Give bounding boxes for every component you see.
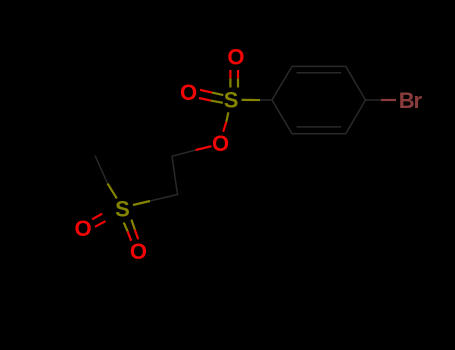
svg-text:O: O <box>130 239 147 264</box>
svg-text:S: S <box>224 88 239 113</box>
svg-text:O: O <box>212 131 229 156</box>
svg-text:O: O <box>227 44 244 69</box>
svg-text:S: S <box>115 197 130 222</box>
svg-text:Br: Br <box>399 88 423 113</box>
svg-text:O: O <box>180 80 197 105</box>
svg-text:O: O <box>74 216 91 241</box>
